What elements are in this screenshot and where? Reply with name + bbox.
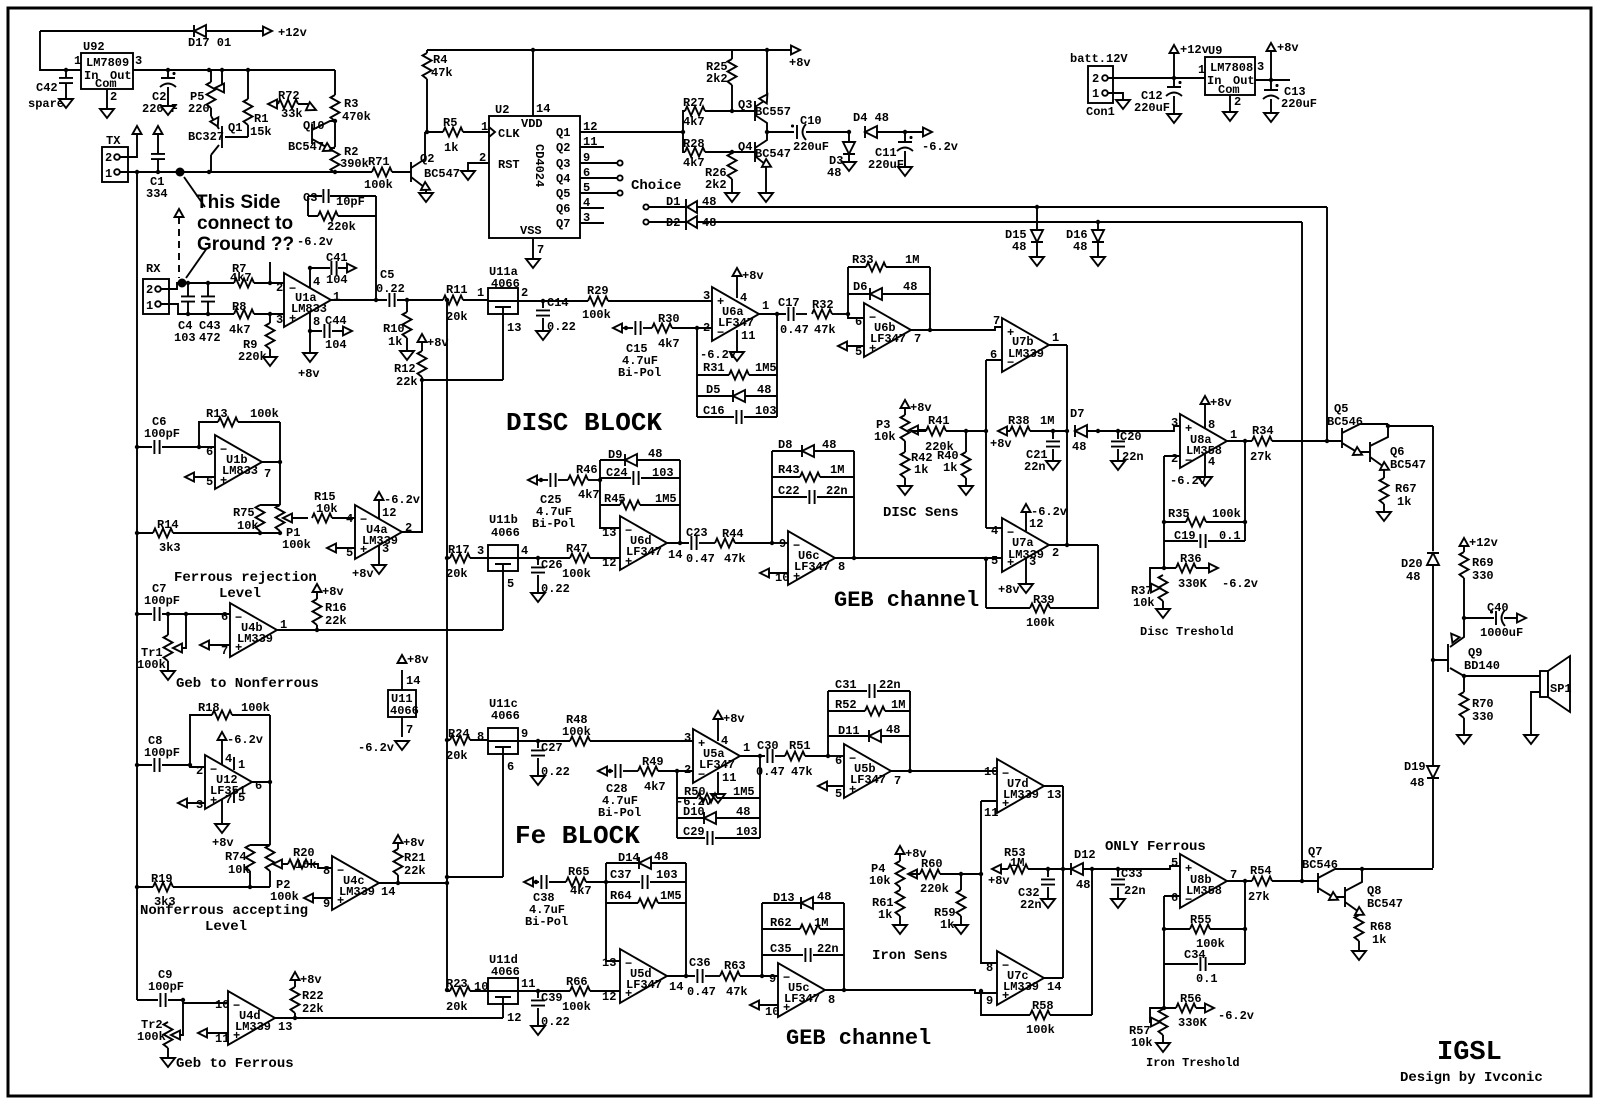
ground under Q4 <box>759 193 773 202</box>
svg-text:Disc Treshold: Disc Treshold <box>1140 625 1234 639</box>
potentiometer P5 220 <box>211 70 222 88</box>
svg-text:R50: R50 <box>684 785 706 799</box>
wire U1a output <box>331 299 387 301</box>
wire U5a fb right rail <box>759 756 761 838</box>
svg-text:3: 3 <box>135 54 142 68</box>
svg-text:C41: C41 <box>326 251 348 265</box>
svg-text:11: 11 <box>741 329 755 343</box>
wire TX pin1 rail y=172 <box>120 171 411 173</box>
svg-text:1: 1 <box>743 741 750 755</box>
svg-text:1M: 1M <box>814 916 828 930</box>
svg-text:3: 3 <box>196 798 203 812</box>
svg-text:BD140: BD140 <box>1464 659 1500 673</box>
svg-text:LM833: LM833 <box>222 464 258 478</box>
op-amp U6d LF347 <box>620 516 667 570</box>
svg-text:D14: D14 <box>618 851 640 865</box>
ground under C14 <box>536 331 550 340</box>
svg-text:R43: R43 <box>778 463 800 477</box>
capacitor C43 472 <box>207 283 209 314</box>
svg-text:22n: 22n <box>879 678 901 692</box>
op-amp U8a LM358 <box>1180 414 1227 468</box>
analog switch U11b 4066 <box>488 545 518 571</box>
svg-text:100pF: 100pF <box>144 746 180 760</box>
resistor R23 20k <box>447 990 488 992</box>
svg-text:-6.2v: -6.2v <box>1222 577 1258 591</box>
svg-text:1: 1 <box>1230 428 1237 442</box>
svg-text:C39: C39 <box>541 991 563 1005</box>
capacitor C19 0.1 <box>1164 540 1245 542</box>
op-amp U6b LF347 <box>864 303 911 357</box>
svg-text:D5: D5 <box>706 383 720 397</box>
svg-text:C10: C10 <box>800 114 822 128</box>
svg-text:+8v: +8v <box>300 973 322 987</box>
regulator U92 LM7809 <box>81 53 133 89</box>
svg-text:22k: 22k <box>404 864 426 878</box>
svg-text:1: 1 <box>333 290 340 304</box>
svg-text:9: 9 <box>986 994 993 1008</box>
capacitor C23 0.47 <box>691 536 696 550</box>
transistor Q8 BC547 <box>1345 869 1362 915</box>
svg-text:R13: R13 <box>206 407 228 421</box>
svg-text:R71: R71 <box>368 155 390 169</box>
svg-text:103: 103 <box>736 825 758 839</box>
svg-text:3: 3 <box>1029 555 1036 569</box>
svg-text:R49: R49 <box>642 755 664 769</box>
capacitor C7 100pF <box>137 613 230 615</box>
svg-text:1M5: 1M5 <box>655 492 677 506</box>
ground under U92 com <box>106 89 108 108</box>
svg-text:10: 10 <box>984 765 998 779</box>
node This-Side annotation dot <box>176 168 185 177</box>
svg-text:7: 7 <box>225 793 232 807</box>
svg-text:220: 220 <box>188 102 210 116</box>
svg-text:103: 103 <box>656 868 678 882</box>
svg-text:100k: 100k <box>562 567 591 581</box>
svg-text:C29: C29 <box>683 825 705 839</box>
svg-text:R62: R62 <box>770 916 792 930</box>
svg-text:13: 13 <box>602 956 616 970</box>
resistor R24 20k <box>447 739 488 741</box>
wire U4a pin12 -6.2v <box>378 500 380 519</box>
svg-text:104: 104 <box>326 273 348 287</box>
svg-text:0.22: 0.22 <box>547 320 576 334</box>
svg-text:1M: 1M <box>891 698 905 712</box>
svg-text:R41: R41 <box>928 414 950 428</box>
svg-text:R32: R32 <box>812 298 834 312</box>
transistor Q9 BD140 <box>1433 618 1464 676</box>
capacitor C8 100pF <box>137 765 205 767</box>
wire U7c pin8 rail <box>981 874 997 963</box>
capacitor C24 103 <box>600 477 680 479</box>
capacitor C15 4.7uF Bi-Pol <box>613 324 622 333</box>
wire U5b pin6 <box>828 755 844 757</box>
op-amp U6c LF347 <box>788 531 835 585</box>
wire U2 Q1 output <box>580 131 683 133</box>
svg-text:10: 10 <box>215 998 229 1012</box>
svg-text:R34: R34 <box>1252 424 1274 438</box>
wire U5b fb right rail <box>909 691 911 771</box>
node +12v arrow top right <box>1173 53 1175 78</box>
capacitor C21 22n <box>1052 431 1054 460</box>
svg-text:+8v: +8v <box>742 269 764 283</box>
wire U5c output to U7c pin9 <box>825 990 997 993</box>
wire U6d fb left rail <box>600 460 620 528</box>
svg-text:D12: D12 <box>1074 848 1096 862</box>
svg-text:100k: 100k <box>562 1000 591 1014</box>
svg-text:22n: 22n <box>1124 884 1146 898</box>
resistor R26 2k2 <box>731 152 733 192</box>
wire U12 pin4 -6.2v <box>221 740 223 765</box>
wire main signal bus <box>446 300 448 990</box>
resistor R61 1k <box>896 890 905 916</box>
svg-text:LM339: LM339 <box>1003 980 1039 994</box>
svg-text:-6.2v: -6.2v <box>922 140 958 154</box>
svg-text:Con1: Con1 <box>1086 105 1115 119</box>
svg-text:10k: 10k <box>228 863 250 877</box>
svg-text:R74: R74 <box>225 850 247 864</box>
wire U4c output <box>379 882 447 884</box>
svg-text:3: 3 <box>1257 60 1264 74</box>
svg-text:47k: 47k <box>726 985 748 999</box>
svg-text:R18: R18 <box>198 701 220 715</box>
svg-text:9: 9 <box>323 897 330 911</box>
svg-text:13: 13 <box>1047 788 1061 802</box>
svg-text:Bi-Pol: Bi-Pol <box>532 517 575 531</box>
wire U7c output <box>1044 977 1063 979</box>
capacitor C10 220uF <box>791 124 806 140</box>
svg-text:C17: C17 <box>778 296 800 310</box>
svg-text:1k: 1k <box>940 918 954 932</box>
resistor R14 3k3 <box>137 532 280 534</box>
resistor R33 1M <box>848 266 930 268</box>
svg-text:+8v: +8v <box>988 874 1010 888</box>
svg-text:14: 14 <box>406 674 420 688</box>
svg-text:1k: 1k <box>444 141 458 155</box>
svg-text:R1: R1 <box>254 112 268 126</box>
wire U8b fb right rail <box>1244 881 1246 964</box>
ground under Q2 <box>419 193 433 202</box>
svg-text:48: 48 <box>648 447 662 461</box>
svg-text:U9: U9 <box>1208 44 1222 58</box>
svg-text:22n: 22n <box>1024 460 1046 474</box>
capacitor C4 103 <box>187 283 189 314</box>
svg-text:3: 3 <box>1171 416 1178 430</box>
wire U7d pin11 rail <box>981 801 997 874</box>
svg-text:7: 7 <box>993 314 1000 328</box>
svg-text:4066: 4066 <box>491 965 520 979</box>
svg-text:1M5: 1M5 <box>755 361 777 375</box>
svg-text:C23: C23 <box>686 526 708 540</box>
wire U4b pin7 arrow <box>200 641 209 650</box>
diode D3 48 <box>848 132 850 161</box>
svg-text:330: 330 <box>1472 569 1494 583</box>
ground under C42 <box>59 99 73 108</box>
svg-text:1M: 1M <box>1010 856 1024 870</box>
svg-text:100k: 100k <box>562 725 591 739</box>
svg-text:C42: C42 <box>36 81 58 95</box>
svg-text:D8: D8 <box>778 438 792 452</box>
svg-text:5: 5 <box>991 554 998 568</box>
svg-text:R64: R64 <box>610 889 632 903</box>
svg-text:LF347: LF347 <box>784 992 820 1006</box>
svg-text:R46: R46 <box>576 463 598 477</box>
connector RX <box>143 279 169 314</box>
svg-text:BC547: BC547 <box>755 147 791 161</box>
svg-text:1M5: 1M5 <box>660 889 682 903</box>
svg-text:0.47: 0.47 <box>686 552 715 566</box>
svg-text:C36: C36 <box>689 956 711 970</box>
analog switch U11a 4066 <box>488 288 518 314</box>
svg-text:48: 48 <box>817 890 831 904</box>
wire U5a pin11 -6.2v <box>717 772 719 793</box>
svg-text:48: 48 <box>1410 776 1424 790</box>
svg-text:47k: 47k <box>791 765 813 779</box>
svg-text:Design by Ivconic: Design by Ivconic <box>1400 1070 1543 1086</box>
svg-text:220k: 220k <box>327 220 356 234</box>
svg-text:R28: R28 <box>683 137 705 151</box>
resistor R41 220k <box>911 430 986 432</box>
svg-text:20k: 20k <box>446 749 468 763</box>
wire U6a feedback left rail <box>696 328 698 417</box>
resistor R48 100k <box>570 737 590 746</box>
op-amp U7c LM339 <box>997 951 1044 1005</box>
svg-text:6: 6 <box>206 445 213 459</box>
wire U7d output rail <box>1044 786 1063 978</box>
svg-text:10k: 10k <box>237 519 259 533</box>
op-amp U7d LM339 <box>997 759 1044 813</box>
svg-text:Q8: Q8 <box>1367 884 1381 898</box>
resistor R5 1k <box>427 131 489 133</box>
svg-text:22k: 22k <box>325 614 347 628</box>
svg-text:LF347: LF347 <box>718 316 754 330</box>
wire U7a pin12 -6.2v <box>1025 512 1027 531</box>
svg-text:1k: 1k <box>1372 933 1386 947</box>
svg-text:+8v: +8v <box>1277 41 1299 55</box>
svg-text:3: 3 <box>703 289 710 303</box>
svg-text:1M: 1M <box>830 463 844 477</box>
wire U2 Q2 stub <box>580 146 604 148</box>
capacitor C34 0.1 <box>1164 963 1245 965</box>
svg-text:BC547: BC547 <box>1390 458 1426 472</box>
svg-text:14: 14 <box>1047 980 1061 994</box>
wire TX pin2 to coil arrow <box>120 134 137 157</box>
resistor R21 22k <box>397 843 399 883</box>
svg-text:220uF: 220uF <box>868 158 904 172</box>
wire U6a pin11 -6.2v <box>736 330 738 351</box>
diode D6 48 <box>848 293 930 295</box>
svg-text:12: 12 <box>602 990 616 1004</box>
svg-text:+8v: +8v <box>723 712 745 726</box>
op-amp U4a LM339 <box>355 505 402 559</box>
ground under R26 <box>725 193 739 202</box>
svg-text:R65: R65 <box>568 865 590 879</box>
resistor 220k feedback <box>308 196 376 300</box>
resistor R53 1M <box>992 865 1001 874</box>
svg-text:11: 11 <box>215 1032 229 1046</box>
svg-text:BC547: BC547 <box>424 167 460 181</box>
wire U2 Q6 stub <box>580 207 604 209</box>
diode D12 48 <box>1071 863 1083 875</box>
wire U2 rst pin2 + ground <box>468 163 489 170</box>
svg-text:4: 4 <box>1208 455 1215 469</box>
svg-text:2k2: 2k2 <box>706 72 728 86</box>
resistor R31 1M5 <box>697 374 777 376</box>
wire U5c pin10 arrow <box>750 1001 759 1010</box>
svg-text:+8v: +8v <box>990 437 1012 451</box>
svg-text:4k7: 4k7 <box>570 884 592 898</box>
svg-text:220uF: 220uF <box>1134 101 1170 115</box>
resistor R72 33k <box>277 103 308 105</box>
svg-text:Geb to Nonferrous: Geb to Nonferrous <box>176 676 319 692</box>
wire U11a pin13 control <box>422 314 503 380</box>
svg-text:D13: D13 <box>773 891 795 905</box>
resistor R45 1M5 <box>600 504 680 506</box>
svg-text:R10: R10 <box>383 322 405 336</box>
op-amp U5d LF347 <box>620 949 667 1003</box>
wire U4c pin9 arrow <box>304 894 313 903</box>
svg-text:47k: 47k <box>724 552 746 566</box>
capacitor C37 103 <box>606 881 686 883</box>
svg-text:0.47: 0.47 <box>687 985 716 999</box>
svg-text:C33: C33 <box>1121 867 1143 881</box>
svg-text:R33: R33 <box>852 253 874 267</box>
wire U11c ctl <box>447 754 503 877</box>
svg-text:This Side: This Side <box>196 192 280 213</box>
svg-text:CD4024: CD4024 <box>532 144 546 187</box>
resistor R66 100k <box>570 987 590 996</box>
svg-text:Com: Com <box>95 77 117 91</box>
svg-text:SP1: SP1 <box>1550 682 1572 696</box>
svg-text:14: 14 <box>668 548 682 562</box>
capacitor C40 1000uF <box>1464 617 1518 619</box>
potentiometer R37 10k <box>1150 568 1164 608</box>
svg-text:10k: 10k <box>874 430 896 444</box>
wire U5b fb left rail <box>827 691 829 756</box>
svg-text:C26: C26 <box>541 558 563 572</box>
resistor R74 10k <box>250 845 270 887</box>
ground under U9 com <box>1229 95 1231 111</box>
svg-text:Nonferrous accepting: Nonferrous accepting <box>140 903 308 919</box>
svg-text:4: 4 <box>991 524 998 538</box>
wire U11a out <box>518 300 588 302</box>
capacitor C32 22n <box>1047 869 1049 898</box>
svg-text:2: 2 <box>146 283 153 297</box>
wire U5c fb left rail <box>761 903 763 976</box>
wire U5b pin5 arrow <box>818 782 827 791</box>
svg-text:3: 3 <box>382 542 389 556</box>
wire U2 Q3 stub <box>580 162 617 164</box>
capacitor C31 22n <box>828 690 910 692</box>
node -6.2v arrow <box>905 131 926 133</box>
svg-text:1M: 1M <box>905 253 919 267</box>
svg-text:8: 8 <box>313 315 320 329</box>
svg-text:BC546: BC546 <box>1327 415 1363 429</box>
svg-text:48: 48 <box>654 850 668 864</box>
svg-text:C40: C40 <box>1487 601 1509 615</box>
capacitor C9 100pF <box>137 1000 228 1003</box>
svg-text:3: 3 <box>684 731 691 745</box>
svg-text:D17 01: D17 01 <box>188 36 231 50</box>
svg-text:48: 48 <box>1076 878 1090 892</box>
resistor R52 1M <box>828 710 910 712</box>
resistor R27 4k7 <box>683 111 755 132</box>
svg-text:2: 2 <box>1052 546 1059 560</box>
svg-text:LM833: LM833 <box>291 302 327 316</box>
resistor R49 4k7 <box>638 767 658 776</box>
wire D1 net to right bus <box>697 207 1327 441</box>
svg-text:+12v: +12v <box>1180 43 1209 57</box>
transistor Q5 BC546 <box>1342 424 1388 452</box>
svg-text:0.22: 0.22 <box>376 282 405 296</box>
pin1/pin5 offset stubs <box>233 757 235 803</box>
svg-text:48: 48 <box>1406 570 1420 584</box>
wire +8v top rail <box>427 49 794 51</box>
wire +12v feed to D17 <box>40 31 264 70</box>
svg-text:R8: R8 <box>232 300 246 314</box>
svg-text:10k: 10k <box>869 874 891 888</box>
wire U8a pin8 +8v <box>1204 404 1206 428</box>
resistor R46 4k7 <box>568 476 588 485</box>
svg-text:C30: C30 <box>757 739 779 753</box>
svg-text:103: 103 <box>755 404 777 418</box>
wire U8a fb right rail <box>1244 441 1246 541</box>
resistor R7 4k7 <box>234 279 254 288</box>
svg-text:8: 8 <box>1208 418 1215 432</box>
svg-text:R3: R3 <box>344 97 358 111</box>
wire RX pin2 top rail <box>161 283 284 289</box>
svg-text:DISC Sens: DISC Sens <box>883 505 959 521</box>
svg-text:1: 1 <box>1198 63 1205 77</box>
svg-text:C44: C44 <box>325 314 347 328</box>
capacitor C42 <box>64 68 68 72</box>
wire U6d output <box>667 542 689 544</box>
svg-text:0.1: 0.1 <box>1219 529 1241 543</box>
svg-text:47k: 47k <box>814 323 836 337</box>
svg-text:R4: R4 <box>433 53 447 67</box>
resistor R16 22k <box>316 592 318 630</box>
transistor Q6 BC547 <box>1370 426 1388 478</box>
op-amp U4d LM339 <box>228 991 275 1045</box>
diode D19 48 <box>1427 766 1439 778</box>
wire U5d output <box>667 975 695 977</box>
svg-text:D6: D6 <box>853 280 867 294</box>
svg-text:8: 8 <box>477 730 484 744</box>
svg-text:LM339: LM339 <box>362 534 398 548</box>
svg-text:10k: 10k <box>295 858 317 872</box>
svg-text:R21: R21 <box>404 851 426 865</box>
diode D8 48 <box>772 450 854 452</box>
diode D15 48 <box>1035 205 1039 209</box>
transistor Q10 BC547 <box>312 121 335 148</box>
svg-text:5: 5 <box>855 345 862 359</box>
svg-text:103: 103 <box>174 331 196 345</box>
svg-text:100k: 100k <box>1026 1023 1055 1037</box>
svg-text:R35: R35 <box>1168 507 1190 521</box>
svg-text:VDD: VDD <box>521 117 543 131</box>
resistor R11 20k <box>443 296 463 305</box>
svg-text:27k: 27k <box>1250 450 1272 464</box>
svg-text:1M: 1M <box>1040 414 1054 428</box>
wire U2 Q5 stub <box>580 192 617 194</box>
resistor R12 22k + control rail <box>421 342 423 533</box>
svg-text:22k: 22k <box>396 375 418 389</box>
wire U8a output <box>1227 440 1342 442</box>
resistor R60 220k <box>908 873 981 875</box>
svg-text:Q10: Q10 <box>303 119 325 133</box>
op-amp U5a LF347 <box>693 729 740 783</box>
svg-text:R30: R30 <box>658 312 680 326</box>
op-amp U12 LF351 <box>205 755 252 809</box>
